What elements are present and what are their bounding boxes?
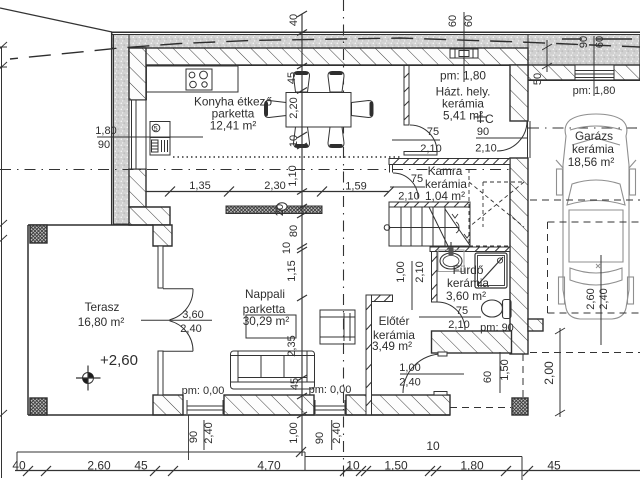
kitchen island dark counter [226, 206, 322, 214]
svg-text:90: 90 [98, 139, 110, 151]
wall: left exterior speckle band [114, 35, 130, 225]
svg-text:60: 60 [463, 15, 475, 27]
svg-text:60: 60 [447, 15, 459, 27]
svg-text:Nappali: Nappali [245, 287, 285, 301]
left site dimension line [1, 47, 3, 478]
terrace survey point symbol [76, 366, 101, 391]
svg-text:5: 5 [154, 124, 158, 133]
svg-text:60: 60 [594, 36, 606, 48]
room label: Konyha etkezo [194, 95, 272, 133]
wall: right exterior wall middle [510, 158, 528, 354]
svg-text:10: 10 [426, 439, 440, 453]
wall: top exterior speckle band (main house) [112, 35, 528, 49]
terrace door upper jamb [158, 246, 163, 288]
label: kitchen window 180/90 [95, 125, 203, 151]
stair treads [400, 207, 402, 246]
room label: Nappali [243, 287, 290, 328]
wall: right wall hazt.hely/garage upper [510, 65, 528, 121]
bottom bracket lines [17, 451, 305, 453]
svg-text:Garázs: Garázs [575, 129, 613, 143]
island sink ellipse [277, 203, 287, 211]
svg-text:16,80 m²: 16,80 m² [78, 315, 125, 329]
car windshield [567, 180, 625, 205]
car hood lines [570, 126, 622, 130]
label: window1 90/240 rotated [188, 415, 215, 460]
svg-text:75: 75 [456, 305, 468, 317]
wall: bathroom left wall [432, 252, 438, 303]
dining table [286, 93, 351, 128]
svg-text:1,80: 1,80 [460, 459, 484, 473]
svg-text:1,15: 1,15 [286, 260, 298, 281]
label: porch 60/150 rotated [482, 352, 511, 393]
svg-text:4,70: 4,70 [257, 459, 281, 473]
door arc: bathroom 75/210 [437, 302, 465, 330]
svg-text:45: 45 [134, 459, 148, 473]
svg-text:1,10: 1,10 [287, 165, 299, 186]
porch dashed overhang [450, 353, 640, 408]
svg-text:2,10: 2,10 [420, 143, 441, 155]
door arc: hazt.hely to garage 90/210 [497, 121, 527, 151]
label: window2 90/240 rotated [314, 420, 343, 450]
car rear window [570, 268, 622, 285]
svg-text:1,59: 1,59 [345, 181, 366, 193]
svg-text:1,80: 1,80 [95, 125, 116, 137]
wall: eloter L-wall horizontal [366, 295, 393, 302]
svg-text:5,41 m²: 5,41 m² [443, 109, 483, 123]
wall: eloter L-wall vertical [366, 295, 372, 415]
site boundary dashed line over walls [10, 38, 640, 59]
wall: kamra top thin wall [389, 159, 510, 173]
wall: top hatched masonry band [129, 48, 528, 65]
label: passage 100/210 rotated [395, 261, 426, 310]
dining chair left [265, 101, 287, 118]
svg-text:10: 10 [346, 459, 360, 473]
svg-text:2,40: 2,40 [331, 422, 343, 443]
room label: Eloter [372, 314, 415, 353]
svg-text:75: 75 [411, 173, 423, 185]
room label: Hazt hely [436, 69, 491, 123]
window: garage top window opening [575, 65, 614, 80]
wall: left corner step block [129, 207, 170, 225]
svg-text:Terasz: Terasz [85, 300, 120, 314]
svg-text:2,35: 2,35 [286, 335, 298, 356]
svg-text:2,10: 2,10 [475, 143, 496, 155]
kitchen dotted boundary [173, 156, 400, 158]
terrace door lower jamb [158, 351, 163, 395]
shower tray [475, 253, 507, 288]
svg-text:1,50: 1,50 [384, 459, 408, 473]
washbasin [438, 242, 464, 272]
svg-text:2,40: 2,40 [399, 377, 420, 389]
section line horizontal left [0, 169, 510, 171]
label: entrance door 100/240 [399, 362, 464, 389]
svg-text:1,00: 1,00 [288, 422, 300, 443]
wall: bottom exterior wall with terrace corner [153, 395, 183, 415]
garage door dashed outline [530, 200, 640, 313]
car roof [569, 210, 623, 262]
room label: Kamra [425, 164, 467, 203]
dining chairs bottom [294, 127, 310, 148]
svg-text:18,56 m²: 18,56 m² [568, 155, 615, 169]
svg-text:90: 90 [314, 432, 326, 444]
section line horizontal right (garage) [528, 127, 640, 129]
car wheels [557, 169, 563, 195]
stairs outline [389, 207, 470, 246]
svg-text:1,35: 1,35 [189, 180, 210, 192]
svg-text:90: 90 [477, 126, 489, 138]
svg-text:Kamra: Kamra [428, 164, 463, 178]
wall: kamra bottom thin wall [389, 202, 470, 207]
door arcs: terrace french door [163, 288, 193, 290]
building outer edge lines [111, 32, 640, 225]
window: kitchen left wall window [129, 100, 146, 169]
svg-text:45: 45 [547, 459, 561, 473]
label: terrace door 360/240 [170, 309, 213, 335]
left site line ticks [0, 42, 7, 420]
label: garage wall 50 [532, 40, 552, 85]
bottom dim ticks [23, 447, 533, 476]
svg-text:2,40: 2,40 [180, 323, 201, 335]
svg-text:2,40: 2,40 [598, 288, 610, 309]
svg-text:45: 45 [286, 72, 298, 84]
label: chimney 60/60 [447, 12, 475, 82]
svg-text:2,10: 2,10 [448, 319, 469, 331]
label: garage door 90/210 [475, 126, 528, 155]
wall: garage front nub [528, 319, 543, 331]
svg-text:30,29 m²: 30,29 m² [243, 314, 290, 328]
label: bathroom door 75/210 [419, 305, 481, 331]
door arc: kamra 75/210 [393, 173, 418, 198]
window: living room window 1 [187, 400, 223, 414]
svg-text:pm: 0,00: pm: 0,00 [309, 384, 352, 396]
level marker +C [475, 112, 495, 127]
svg-text:pm: 0,00: pm: 0,00 [182, 385, 225, 397]
svg-text:Fürdő: Fürdő [453, 263, 484, 277]
label: hazt door 75/210 [392, 126, 442, 155]
door arc: entrance 100/240 [403, 354, 442, 393]
wall: garage top hatched band [528, 65, 640, 80]
label: kamra door 75/210 [390, 173, 425, 203]
room label: Garazs [568, 129, 615, 169]
terrace outline [28, 225, 450, 415]
toilet [482, 300, 512, 319]
svg-text:kerámia: kerámia [447, 276, 489, 290]
porch pillar dark [512, 398, 528, 415]
wall: terrace door corner block A [153, 225, 172, 246]
svg-text:3,60 m²: 3,60 m² [446, 289, 486, 303]
svg-text:+2,60: +2,60 [100, 352, 138, 369]
svg-text:1,00: 1,00 [399, 362, 420, 374]
svg-text:Előtér: Előtér [379, 314, 410, 328]
svg-text:75: 75 [427, 126, 439, 138]
svg-text:2,40: 2,40 [203, 422, 215, 443]
room label: Terasz [78, 300, 125, 329]
room label: Furdo [446, 263, 489, 303]
wall: garage top speckle band [528, 35, 640, 66]
svg-text:2,10: 2,10 [398, 191, 419, 203]
svg-text:pm: 90: pm: 90 [480, 322, 514, 334]
kitchen counter [146, 66, 238, 92]
svg-text:80: 80 [288, 225, 300, 237]
armchair / tv cabinet [320, 310, 355, 344]
wall: corridor top wall piece [404, 152, 437, 156]
svg-text:kerámia: kerámia [572, 142, 614, 156]
svg-text:1,04 m²: 1,04 m² [425, 189, 465, 203]
svg-text:90: 90 [188, 431, 200, 443]
svg-text:2,60: 2,60 [585, 288, 597, 309]
svg-text:10: 10 [288, 135, 300, 147]
stair break diagonal [445, 209, 471, 247]
terrace pillar bottom-left [30, 398, 47, 415]
label: garage window pm 1,80 [562, 36, 632, 97]
svg-text:pm: 1,80: pm: 1,80 [440, 69, 486, 83]
wall: partition kitchen/hazt.hely [404, 65, 409, 125]
svg-text:40: 40 [12, 459, 26, 473]
svg-text:2,60: 2,60 [87, 459, 111, 473]
chimney block in top wall [450, 49, 478, 58]
wall: left hatched masonry lower [129, 169, 146, 207]
svg-text:10: 10 [281, 242, 293, 254]
dining chair right [352, 101, 374, 118]
svg-text:20: 20 [274, 204, 286, 216]
wall: bathroom top thin wall [430, 247, 510, 252]
svg-text:C: C [485, 112, 494, 126]
svg-text:40: 40 [288, 14, 300, 26]
section line vertical [343, 0, 345, 480]
dining chairs top [294, 72, 310, 93]
car body [563, 114, 629, 319]
kitchen appliances fridge/oven [150, 122, 170, 156]
svg-text:1,50: 1,50 [499, 359, 511, 380]
svg-text:45: 45 [289, 378, 301, 390]
svg-text:90: 90 [578, 36, 590, 48]
site boundary solid line [0, 8, 112, 32]
svg-text:2,20: 2,20 [288, 97, 300, 118]
bottom main dim line [15, 470, 640, 472]
svg-text:3,49 m²: 3,49 m² [372, 339, 412, 353]
svg-text:2,30: 2,30 [264, 180, 285, 192]
window: living room window 2 [315, 400, 345, 414]
nappali area box [246, 315, 296, 338]
svg-text:1,00: 1,00 [395, 261, 407, 282]
svg-text:2,00: 2,00 [542, 361, 556, 385]
label: porch depth 2,00 [542, 328, 565, 417]
wall: bottom wall segment 2 [224, 395, 314, 415]
wall: left hatched masonry upper [129, 48, 146, 100]
svg-text:12,41 m²: 12,41 m² [210, 119, 257, 133]
sofa [231, 351, 315, 389]
wall: wc corridor thick wall [432, 331, 512, 353]
stair walk line with start circle [384, 225, 390, 231]
door arc: hazt.hely to corridor 75/210 [410, 125, 437, 152]
svg-text:2,10: 2,10 [414, 261, 426, 282]
svg-text:50: 50 [532, 73, 544, 85]
stove with burners [186, 69, 212, 90]
label: garage car 2,60/2,40 [585, 255, 610, 345]
void above dashed outline [469, 169, 524, 246]
terrace pillar top-left [30, 225, 47, 243]
svg-text:3,60: 3,60 [182, 309, 203, 321]
svg-text:60: 60 [482, 371, 494, 383]
car mirrors [556, 160, 563, 168]
wall: bottom wall segment 3 [346, 395, 450, 415]
